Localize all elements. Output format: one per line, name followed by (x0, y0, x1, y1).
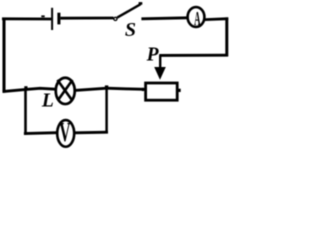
svg-text:V: V (59, 116, 70, 147)
voltmeter V circle (57, 120, 74, 147)
rheostat body rectangle (146, 83, 178, 100)
wire: lower-left horizontal to lamp (3, 88, 56, 91)
lamp X diagonal 1 (57, 80, 72, 100)
svg-text:L: L (41, 91, 54, 112)
wire: horizontal toward slider (159, 54, 228, 57)
wire: lamp to node B (75, 88, 108, 90)
wire: top-left horizontal from corner to battery (2, 17, 51, 20)
rheostat right terminal stub (178, 89, 180, 92)
svg-text:P: P (146, 45, 160, 66)
switch S pivot circle (114, 17, 117, 20)
wire: voltmeter branch bottom-left (24, 131, 57, 135)
switch S blade (open) (117, 4, 140, 17)
svg-text:S: S (125, 19, 136, 41)
battery cell: short thick plate (57, 13, 60, 25)
wire: voltmeter branch left vertical (24, 89, 27, 135)
wire: ammeter to top-right corner (205, 17, 228, 21)
tick mark on top wire (41, 15, 44, 17)
wire: switch contact to ammeter (141, 18, 187, 19)
node B junction tick (105, 85, 108, 87)
lamp X diagonal 2 (58, 80, 72, 100)
wire: right vertical down (225, 17, 228, 56)
wire: node B to rheostat left terminal (106, 88, 145, 89)
node A junction tick (24, 86, 27, 88)
wire end dot at rheostat terminal (141, 88, 144, 91)
battery cell: long thin plate (51, 8, 53, 30)
lamp L circle (56, 78, 75, 104)
wire: battery to switch pivot (61, 17, 114, 20)
wire: voltmeter branch right vertical (105, 88, 108, 134)
wire: slider stem vertical (159, 55, 161, 68)
svg-text:A: A (194, 8, 201, 30)
ammeter A circle (188, 7, 205, 27)
slider arrowhead onto rheostat (154, 67, 166, 80)
wire: left vertical from battery down (2, 18, 5, 93)
wire: voltmeter branch bottom-right (75, 131, 108, 135)
switch blade tip cap (139, 2, 143, 5)
